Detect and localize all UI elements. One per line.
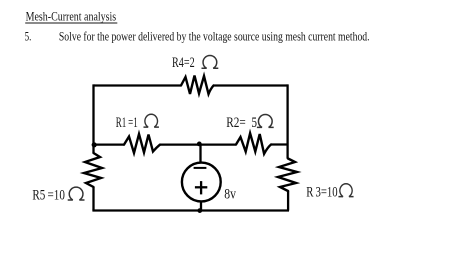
minus sign inside source bbox=[194, 167, 207, 169]
wire: middle rail left of R1 bbox=[94, 143, 125, 145]
svg-text:5.: 5. bbox=[25, 29, 32, 43]
svg-text:Mesh-Current analysis: Mesh-Current analysis bbox=[26, 10, 117, 24]
resistor R5 (vertical zigzag on left wire) bbox=[84, 153, 102, 187]
wire: left side lower segment bbox=[92, 187, 94, 211]
wire: right side lower segment bbox=[287, 191, 289, 211]
svg-text:R2= 5: R2= 5 bbox=[226, 115, 257, 131]
voltage source V1 (circle) bbox=[182, 163, 221, 202]
ohm symbol for R4 bbox=[202, 55, 219, 68]
problem statement text bbox=[59, 30, 370, 44]
ohm symbol for R3 bbox=[338, 184, 353, 197]
svg-text:Solve for the power delivered: Solve for the power delivered by the vol… bbox=[59, 30, 370, 44]
wire: top side right segment bbox=[214, 84, 288, 86]
svg-text:R 3=10: R 3=10 bbox=[306, 184, 338, 200]
svg-text:8v: 8v bbox=[224, 186, 236, 202]
junction node on bottom rail below source bbox=[197, 208, 202, 213]
wire: left side upper segment bbox=[92, 84, 94, 153]
svg-text:R5 =10: R5 =10 bbox=[32, 188, 65, 204]
title text: Mesh-Current analysis bbox=[25, 10, 117, 24]
plus sign inside source bbox=[195, 181, 207, 194]
wire: top side left segment bbox=[94, 84, 182, 86]
wire: stub from source bottom to bottom rail bbox=[200, 201, 202, 210]
junction node on middle rail above source bbox=[197, 142, 202, 147]
problem number label: 5. bbox=[25, 29, 32, 43]
resistor R3 (vertical zigzag on right wire) bbox=[278, 159, 297, 192]
wire: right side upper segment bbox=[286, 84, 288, 158]
ohm symbol for R1 bbox=[143, 114, 158, 127]
svg-text:R4=2: R4=2 bbox=[172, 55, 195, 71]
resistor R4 (zigzag on top wire) bbox=[181, 76, 214, 95]
junction node on middle rail at left wire bbox=[92, 142, 97, 147]
wire: middle rail right of R2 bbox=[271, 143, 288, 145]
resistor R1 (zigzag on middle rail) bbox=[124, 134, 160, 153]
wire: middle rail between R1 and R2 bbox=[160, 143, 236, 145]
ohm symbol for R2 bbox=[257, 115, 274, 128]
wire: bottom side bbox=[92, 209, 289, 211]
resistor R2 (zigzag on middle rail) bbox=[236, 133, 271, 154]
ohm symbol for R5 bbox=[68, 187, 85, 200]
wire: stub from middle rail to source top bbox=[199, 145, 201, 163]
svg-text:R1 =1: R1 =1 bbox=[116, 115, 138, 131]
